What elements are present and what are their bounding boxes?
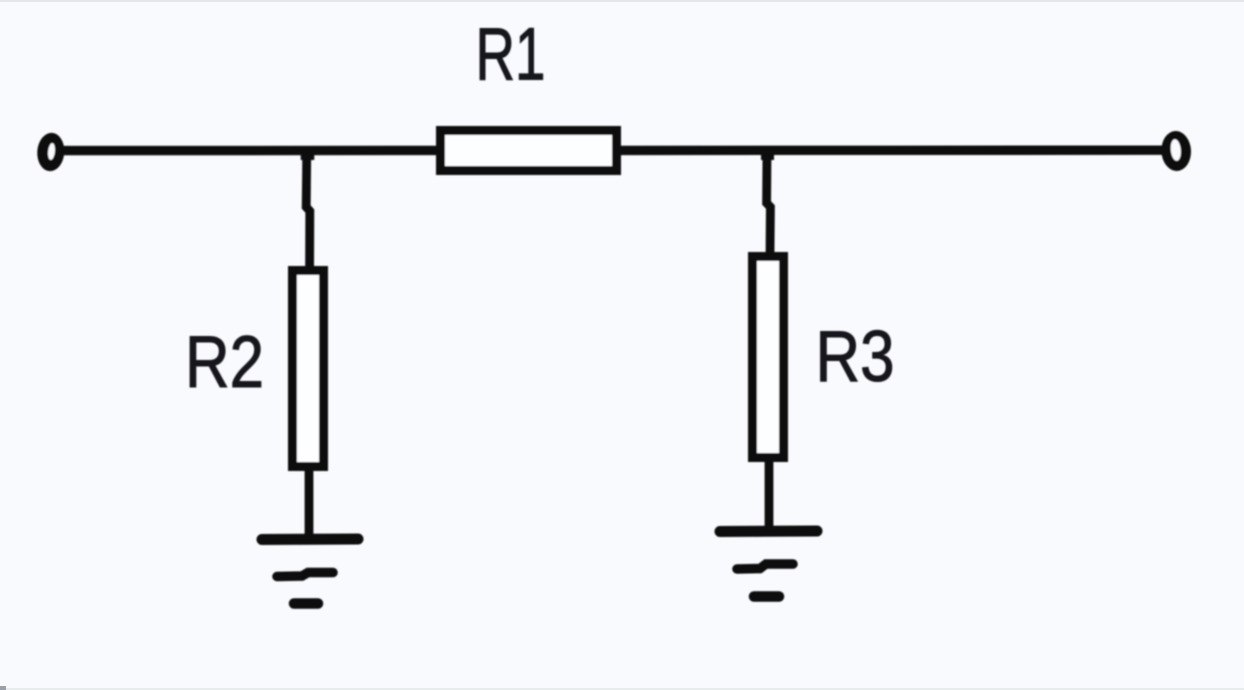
svg-text:R2: R2 bbox=[185, 322, 264, 403]
svg-text:R1: R1 bbox=[476, 13, 546, 96]
svg-text:R3: R3 bbox=[816, 316, 895, 397]
